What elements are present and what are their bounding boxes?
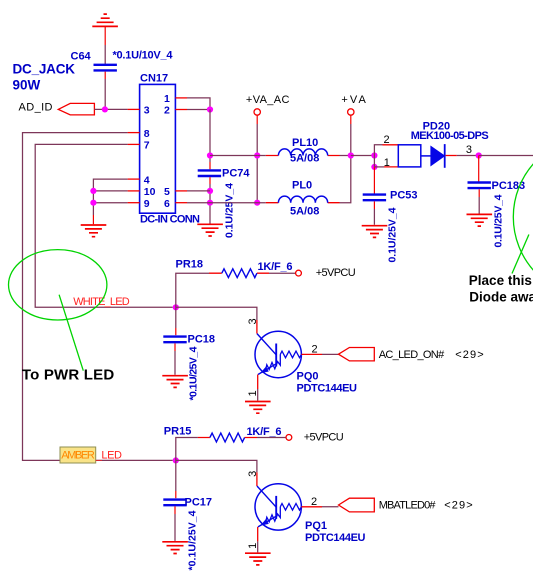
wire node K up and to PD20 pin2 (374, 145, 382, 156)
svg-text:PC53: PC53 (390, 190, 418, 202)
svg-text:Diode away: Diode away (469, 289, 533, 304)
svg-text:3: 3 (247, 471, 259, 477)
pin 4 (128, 174, 150, 186)
transistor PQ0 PDTC144EU (255, 320, 322, 389)
wire node M to right edge (479, 155, 533, 157)
capacitor PC74 (198, 168, 251, 239)
svg-text:PL0: PL0 (292, 180, 312, 192)
pin 1 (164, 93, 187, 105)
svg-text:PR18: PR18 (176, 259, 204, 271)
ground (under PC183) (467, 214, 493, 226)
port MBATLED0# (339, 498, 473, 512)
inductor PL0 (266, 180, 340, 218)
svg-text:*0.1U/25V_4: *0.1U/25V_4 (187, 510, 199, 570)
node O (AMBER junction) (173, 457, 179, 463)
svg-text:PQ1: PQ1 (305, 520, 327, 532)
port AD_ID (19, 102, 95, 115)
svg-text:8: 8 (144, 128, 150, 140)
node J (+VA row tie) (348, 152, 354, 158)
svg-text:+5VPCU: +5VPCU (304, 431, 344, 443)
svg-text:+VA: +VA (341, 94, 366, 106)
svg-text:MEK100-05-DPS: MEK100-05-DPS (411, 130, 489, 142)
svg-text:DC-IN CONN: DC-IN CONN (140, 214, 200, 226)
svg-text:4: 4 (144, 174, 150, 186)
svg-text:2: 2 (164, 105, 170, 117)
wire PC183 to ground (478, 197, 480, 214)
svg-text:<29>: <29> (444, 500, 473, 512)
wire pin5 pin6 to column (187, 191, 210, 203)
power +VA (341, 94, 366, 124)
pin 7 (128, 140, 150, 152)
annotation green pointer line (59, 295, 83, 371)
annotation green ellipse (To PWR LED) (9, 250, 107, 320)
svg-text:5A/08: 5A/08 (290, 153, 319, 165)
node B (pins 1-2 tie) (207, 106, 213, 112)
svg-text:PL10: PL10 (292, 137, 318, 149)
svg-text:AMBER: AMBER (61, 450, 95, 462)
wire node N to PQ0 pin3 (176, 307, 257, 320)
wire AD_ID to CN17 pin 3 (94, 108, 127, 110)
inductor PL10 (257, 137, 339, 165)
svg-text:1K/F_6: 1K/F_6 (258, 261, 293, 273)
svg-text:_LED: _LED (95, 450, 122, 462)
svg-text:1K/F_6: 1K/F_6 (247, 426, 282, 438)
svg-text:0.1U/25V_4: 0.1U/25V_4 (387, 207, 399, 262)
diode PD20 MEK100-05-DPS (383, 121, 489, 170)
wire PC53 to ground (373, 209, 375, 225)
svg-text:2: 2 (311, 496, 317, 508)
svg-text:10: 10 (144, 186, 156, 198)
node M (PC183 branch) (476, 152, 482, 158)
svg-text:3: 3 (466, 144, 472, 156)
capacitor PC18 (163, 307, 215, 400)
svg-text:WHITE_LED: WHITE_LED (73, 296, 130, 308)
wire PQ1 pin1 to ground (257, 541, 259, 552)
node F (pin10 tie) (90, 188, 96, 194)
node C (row 155 tap) (207, 152, 213, 158)
node K (PD20 pin2 branch) (371, 152, 377, 158)
power +VA_AC (246, 94, 290, 124)
svg-text:9: 9 (144, 198, 150, 210)
capacitor PC183 (468, 156, 526, 248)
annotation green line (diode note) (512, 235, 529, 274)
svg-text:PC18: PC18 (188, 334, 216, 346)
wire PD20 pin3 to node M (457, 155, 479, 157)
power +5VPCU (upper) (296, 267, 356, 279)
text DC_JACK 90W (13, 62, 76, 93)
ground (under PQ0) (245, 402, 271, 414)
svg-text:3: 3 (144, 105, 150, 117)
wire node L to PD20 pin1 (374, 166, 384, 168)
annotation green circle (diode note) (513, 137, 533, 298)
svg-text:5: 5 (164, 186, 170, 198)
node G (pin9 tie) (90, 200, 96, 206)
pin 10 (128, 186, 156, 198)
node I (254, 200, 260, 206)
pin 9 (128, 198, 150, 210)
node L (PD20 pin1 / PC53 branch) (371, 164, 377, 170)
text Place this Diode away (469, 273, 533, 304)
wire PR18 to +5VPCU (269, 272, 295, 274)
ground (under PC17) (162, 542, 188, 554)
wire PL10 to +VA node (340, 155, 351, 157)
wire node N up to PR18 (176, 273, 209, 307)
transistor PQ1 PDTC144EU (255, 472, 322, 541)
ground (under PQ1) (245, 553, 271, 565)
ground (under PC18) (162, 376, 188, 388)
label PQ1 (247, 471, 365, 549)
wire PR15 to +5VPCU (257, 437, 286, 439)
wire PQ0 pin1 to ground (257, 389, 259, 401)
node H (254, 152, 260, 158)
svg-text:90W: 90W (13, 78, 41, 93)
svg-text:PDTC144EU: PDTC144EU (305, 532, 366, 544)
pin 3 (128, 105, 150, 117)
wire ground to C64 (104, 45, 106, 65)
wire PC17 to ground (174, 514, 176, 541)
wire node K to node L (373, 156, 375, 167)
node N (WHITE junction) (173, 304, 179, 310)
svg-text:AD_ID: AD_ID (19, 102, 53, 114)
wire pin1/pin2 to node B (187, 98, 210, 110)
svg-text:CN17: CN17 (140, 73, 168, 85)
svg-text:PC74: PC74 (222, 168, 250, 180)
svg-text:<29>: <29> (455, 349, 484, 361)
wire C64 to node (104, 79, 106, 109)
svg-text:MBATLED0#: MBATLED0# (379, 500, 437, 512)
svg-text:AC_LED_ON#: AC_LED_ON# (379, 349, 445, 361)
wire PC74 to ground (209, 177, 211, 223)
power +5VPCU (lower) (286, 431, 344, 443)
svg-text:PC17: PC17 (185, 497, 213, 509)
wire row155 to PD20 junction (351, 155, 375, 157)
node D (pin5 tie) (207, 188, 213, 194)
wire row202 node E to PL0 (210, 202, 266, 204)
svg-text:+5VPCU: +5VPCU (316, 267, 356, 279)
label PQ0 (247, 318, 357, 396)
wire node O up to PR15 (176, 438, 198, 461)
resistor PR18 (176, 259, 293, 278)
ground (under PC74) (197, 224, 223, 236)
ground (under PC53) (362, 226, 388, 238)
wire PL0 right lead up to +VA column (340, 124, 351, 203)
wire PQ1 pin2 to port (322, 506, 339, 508)
svg-text:2: 2 (312, 344, 318, 356)
wire row155 node C to node H (210, 155, 257, 157)
net label AMBER_LED (highlighted) (60, 447, 122, 463)
svg-text:5A/08: 5A/08 (290, 206, 319, 218)
pin 2 (164, 105, 187, 117)
svg-text:PQ0: PQ0 (297, 371, 319, 383)
wire PC18 to ground (174, 351, 176, 375)
svg-text:Place this: Place this (469, 273, 532, 288)
wire node O to PQ1 pin3 (176, 460, 257, 472)
svg-text:2: 2 (384, 134, 390, 146)
pin 5 (164, 186, 187, 198)
resistor PR15 (164, 426, 282, 442)
pin 6 (164, 198, 187, 210)
node A (junction C64 / AD_ID / pin3) (102, 106, 108, 112)
svg-text:3: 3 (247, 318, 259, 324)
wire +VA_AC down through rows (256, 124, 258, 203)
connector CN17 (DC-IN CONN) (140, 73, 200, 226)
svg-text:*0.1U/10V_4: *0.1U/10V_4 (113, 50, 174, 62)
port AC_LED_ON# (339, 348, 484, 361)
ground (pins 4/10/9) (81, 215, 107, 237)
svg-text:+VA_AC: +VA_AC (246, 94, 290, 106)
pin 8 (128, 128, 150, 140)
svg-text:To PWR LED: To PWR LED (22, 367, 114, 384)
svg-text:PDTC144EU: PDTC144EU (297, 383, 358, 395)
capacitor PC53 (363, 167, 418, 263)
wire node B down to PC74 (209, 110, 211, 163)
wire PQ0 pin2 to port (322, 353, 339, 355)
ground (inverted, above C64) (92, 14, 118, 45)
node E (pin6 tie) (207, 200, 213, 206)
svg-text:0.1U/25V_4: 0.1U/25V_4 (224, 183, 236, 238)
capacitor PC17 (163, 460, 212, 570)
wire pins 4 10 9 to column (93, 179, 127, 215)
svg-text:1: 1 (384, 157, 390, 169)
svg-text:1: 1 (164, 93, 170, 105)
wire pin7 net (to WHITE row) (35, 144, 173, 307)
svg-text:7: 7 (144, 140, 150, 152)
svg-text:0.1U/25V_4: 0.1U/25V_4 (493, 194, 505, 247)
wire pin8 net (left bus to AMBER row) (23, 133, 173, 461)
svg-text:PR15: PR15 (164, 426, 192, 438)
svg-text:6: 6 (164, 198, 170, 210)
svg-text:*0.1U/25V_4: *0.1U/25V_4 (188, 346, 200, 400)
capacitor C64 (71, 50, 174, 80)
svg-text:DC_JACK: DC_JACK (13, 62, 76, 77)
